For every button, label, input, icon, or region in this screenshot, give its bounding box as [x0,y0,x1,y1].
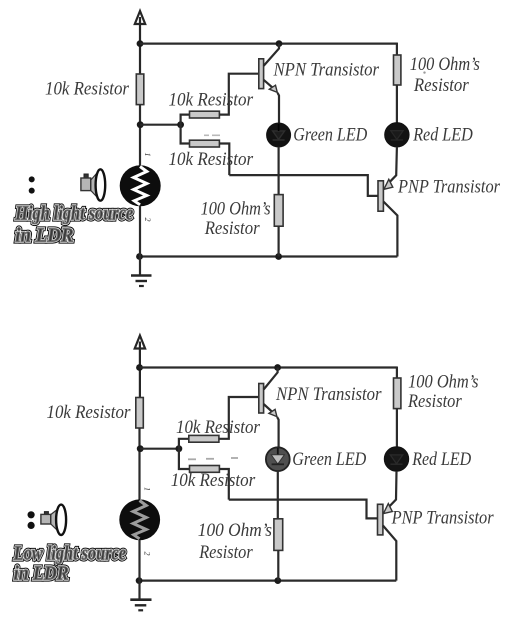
node junction left on ground rail [136,253,143,260]
label 100 Ohm's Resistor middle (top) [201,199,271,240]
svg-text:10k Resistor: 10k Resistor [45,78,130,99]
wire Green LED to 100 Ohm resistor [278,147,280,195]
node junction at top rail left [137,40,144,47]
ground symbol (top circuit) [131,276,152,287]
svg-text:PNP Transistor: PNP Transistor [397,177,500,198]
NPN transistor Q1 base bar [259,59,264,89]
LDR (bottom circuit) [119,499,160,540]
wire top rail (bottom circuit) [140,366,397,368]
resistor 10k horizontal 1 (bottom circuit) [189,435,219,442]
wire PNP collector down to ground rail [383,202,397,257]
svg-text:Low light source: Low light source [13,544,126,565]
NPN emitter arrow [269,85,277,92]
wire 10k resistor 2 to PNP base wire (bottom circuit) [219,469,228,500]
svg-text:10k Resistor: 10k Resistor [169,89,254,110]
light source speaker icon (bottom) [41,505,66,535]
wire NPN emitter to Green LED (bottom circuit) [277,417,279,448]
NPN emitter wire [264,80,273,88]
PNP transistor base bar (bottom circuit) [378,504,383,535]
wire PNP base from 10k resistor [229,175,378,196]
resistor 100 Ohm right (bottom circuit) [394,378,401,409]
wire right rail down to resistor (bottom circuit) [396,367,398,379]
faint artifact dashes above bottom 10k resistor 2 [188,458,238,459]
power supply arrow (VCC) top circuit [135,11,145,74]
svg-text:10k Resistor: 10k Resistor [47,402,132,423]
node junction left on ground rail (bottom circuit) [136,577,143,584]
wire left rail resistor to LDR [139,105,141,166]
faint artifact dashes above top 10k resistor 2 [204,134,220,136]
Green LED (top circuit) [267,123,291,147]
svg-text:100 Ohm’s: 100 Ohm’s [410,54,480,75]
wire up-branch to 10k resistor 1 [181,115,190,125]
svg-text:NPN Transistor: NPN Transistor [275,384,382,405]
wire LDR to ground [139,206,141,276]
wire PNP base from 10k resistor (bottom circuit) [229,500,378,519]
LDR (top circuit) [120,165,161,206]
light source icon dots (bottom) [28,511,35,529]
wire 10k resistor 1 to NPN base (bottom circuit) [219,397,259,439]
resistor 10k horizontal 1 (top circuit) [190,111,220,118]
node junction middle resistor on ground rail (bottom circuit) [274,577,281,584]
svg-text:100 Ohm’s: 100 Ohm’s [408,371,478,392]
wire down-branch to 10k resistor 2 [181,125,190,144]
svg-text:2: 2 [143,218,152,222]
NPN emitter wire (bottom circuit) [264,404,273,412]
faint artifact dot below top-right 100 Ohm's label [423,71,425,73]
resistor 10k horizontal 2 (bottom circuit) [190,466,220,473]
NPN collector wire [264,44,279,66]
label Low light source in LDR [13,544,126,585]
svg-text:10k Resistor: 10k Resistor [176,417,261,438]
resistor 100 Ohm middle (bottom circuit) [274,519,283,551]
PNP emitter arrow (bottom circuit) [383,504,392,514]
wire left rail resistor to LDR (bottom circuit) [138,428,140,500]
resistor 10k left vertical (bottom circuit) [136,398,144,429]
svg-text:Red LED: Red LED [411,449,471,470]
NPN transistor base bar (bottom circuit) [259,384,264,414]
wire down-branch to 10k resistor 2 (bottom circuit) [179,449,190,469]
wire top rail [140,42,397,44]
svg-text:in LDR: in LDR [15,226,73,247]
svg-text:Green LED: Green LED [293,125,367,146]
ground symbol (bottom circuit) [130,600,151,611]
wire right rail down to resistor [396,43,398,56]
wire junction to divider node (bottom circuit) [140,448,179,450]
wire PNP collector down to ground rail (bottom circuit) [383,526,396,581]
node junction J2 left rail [137,121,144,128]
svg-text:Resistor: Resistor [198,542,253,563]
svg-text:in LDR: in LDR [14,564,69,585]
Green LED (bottom circuit) [266,447,290,471]
node junction NPN collector on rail [276,40,283,47]
svg-text:1: 1 [143,487,152,491]
svg-text:10k Resistor: 10k Resistor [169,149,254,170]
svg-text:2: 2 [143,552,152,556]
wire resistor to Red LED (bottom circuit) [396,409,398,448]
svg-text:PNP Transistor: PNP Transistor [391,507,494,528]
node junction at top rail left (bottom circuit) [136,364,143,371]
label High light source in LDR [14,204,133,247]
resistor 100 Ohm middle (top circuit) [274,195,283,227]
label 100 Ohm's Resistor right (bottom) [407,371,478,411]
wire middle resistor to ground rail [278,226,280,256]
node junction divider (bottom circuit) [176,445,183,452]
svg-text:100 Ohm’s: 100 Ohm’s [198,520,272,541]
NPN emitter arrow (bottom circuit) [269,409,277,416]
Red LED (bottom circuit) [384,447,408,471]
svg-text:Resistor: Resistor [407,391,462,412]
wire LDR to ground (bottom circuit) [138,540,140,600]
svg-text:Resistor: Resistor [204,218,260,239]
wire 10k resistor 1 to NPN base [219,74,258,115]
svg-text:Resistor: Resistor [413,75,469,96]
node junction middle resistor on ground rail [275,253,282,260]
wire resistor to Red LED [396,85,398,123]
resistor 100 Ohm right (top circuit) [394,55,401,85]
node junction divider [177,121,184,128]
light source speaker icon (top) [81,169,105,200]
wire Green LED to 100 Ohm resistor (bottom circuit) [277,471,279,519]
svg-text:High light source: High light source [14,204,133,225]
node junction NPN collector on rail (bottom circuit) [274,364,281,371]
svg-text:NPN Transistor: NPN Transistor [273,59,380,80]
resistor 10k horizontal 2 (top circuit) [190,140,220,147]
wire NPN emitter to Green LED [278,93,280,124]
wire ground rail bottom (top circuit) [139,255,397,257]
power supply arrow (VCC) bottom circuit [135,336,145,398]
node junction J2 left rail (bottom circuit) [137,445,144,452]
Red LED (top circuit) [385,123,409,147]
light source icon dots (top) [29,176,35,193]
PNP transistor Q2 base bar [378,181,383,211]
resistor 10k left vertical (top circuit) [136,74,144,105]
wire Red LED to PNP emitter (bottom circuit) [388,471,396,507]
svg-text:100 Ohm’s: 100 Ohm’s [201,199,271,220]
wire middle resistor to ground rail (bottom circuit) [277,550,279,580]
wire 10k resistor 2 to PNP base wire [219,144,229,176]
label 100 Ohm's Resistor right (top) [410,54,480,96]
PNP emitter arrow (top circuit) [384,179,393,189]
svg-text:1: 1 [143,153,152,157]
wire ground rail bottom (bottom circuit) [139,579,396,581]
svg-text:Green LED: Green LED [292,449,366,470]
wire up-branch to 10k resistor 1 (bottom circuit) [179,439,189,449]
svg-text:10k Resistor: 10k Resistor [171,470,256,491]
wire Red LED to PNP emitter [389,147,397,183]
wire junction to divider node [140,124,180,126]
NPN collector wire (bottom circuit) [264,368,278,390]
label 100 Ohm's Resistor middle (bottom) [198,520,272,563]
svg-text:Red LED: Red LED [412,125,473,146]
